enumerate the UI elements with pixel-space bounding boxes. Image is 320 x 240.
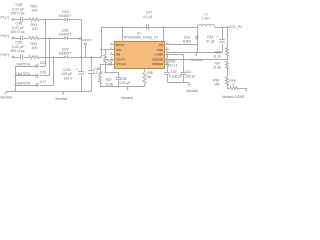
svg-text:1N4007: 1N4007: [59, 33, 72, 37]
svg-text:+: +: [89, 66, 91, 69]
svg-text:1M: 1M: [147, 75, 152, 79]
svg-text:SS/TR: SS/TR: [116, 57, 125, 61]
svg-text:D21: D21: [40, 61, 46, 65]
svg-text:1N4757A: 1N4757A: [16, 81, 31, 85]
svg-text:D17: D17: [40, 80, 46, 84]
svg-text:100: 100: [32, 46, 38, 50]
svg-text:305 V ac: 305 V ac: [11, 12, 25, 16]
svg-text:10k: 10k: [214, 83, 220, 87]
svg-text:Neutral: Neutral: [121, 96, 133, 100]
svg-text:D19: D19: [40, 71, 46, 75]
svg-text:PWRGD: PWRGD: [152, 62, 163, 66]
svg-text:100: 100: [32, 27, 38, 31]
svg-text:P1(+): P1(+): [1, 16, 10, 20]
svg-text:B160: B160: [183, 40, 191, 44]
svg-text:+: +: [76, 68, 78, 71]
svg-text:1N4007: 1N4007: [59, 52, 72, 56]
svg-text:PH: PH: [159, 43, 163, 47]
svg-text:C42: C42: [207, 35, 213, 39]
svg-text:100 pF: 100 pF: [185, 74, 195, 78]
svg-text:TPS54060_DGQ_10: TPS54060_DGQ_10: [123, 36, 158, 40]
svg-text:305 V ac: 305 V ac: [11, 30, 25, 34]
svg-text:P3(+): P3(+): [1, 53, 10, 57]
svg-text:BOOT: BOOT: [116, 43, 124, 47]
svg-text:100 V: 100 V: [64, 76, 74, 80]
svg-text:Neutral: Neutral: [1, 96, 13, 100]
svg-text:1N4007: 1N4007: [59, 14, 72, 18]
svg-text:P2(+): P2(+): [1, 34, 10, 38]
svg-text:41.1k: 41.1k: [213, 55, 221, 59]
svg-text:1N4757A: 1N4757A: [16, 62, 31, 66]
svg-text:1 mH: 1 mH: [202, 17, 211, 21]
svg-text:VCC_PL: VCC_PL: [228, 24, 244, 29]
svg-text:Neutral: Neutral: [186, 89, 198, 93]
svg-text:0: 0: [233, 82, 235, 86]
svg-text:Neutral: Neutral: [191, 58, 203, 62]
svg-text:1N4757A: 1N4757A: [16, 72, 31, 76]
svg-text:10.2k: 10.2k: [105, 82, 113, 86]
svg-text:2.2 µF: 2.2 µF: [93, 71, 103, 75]
svg-text:GND: GND: [157, 48, 163, 52]
svg-text:47 µF: 47 µF: [206, 39, 215, 43]
svg-text:31.6k: 31.6k: [213, 65, 221, 69]
svg-text:Neutral DGND: Neutral DGND: [222, 95, 245, 99]
svg-text:305 V ac: 305 V ac: [11, 49, 25, 53]
svg-text:COMP: COMP: [155, 53, 164, 57]
svg-text:+: +: [217, 35, 219, 38]
svg-text:EN: EN: [116, 53, 120, 57]
svg-text:VSENSE: VSENSE: [151, 57, 163, 61]
svg-text:100: 100: [32, 9, 38, 13]
svg-text:22.1k: 22.1k: [169, 64, 177, 68]
svg-text:0.1 µF: 0.1 µF: [143, 15, 153, 19]
svg-text:0.01 µF: 0.01 µF: [120, 81, 131, 85]
svg-text:SUPPLY: SUPPLY: [82, 38, 93, 42]
svg-text:Neutral: Neutral: [56, 97, 68, 101]
svg-text:0.036 µF: 0.036 µF: [169, 74, 182, 78]
svg-text:VIN: VIN: [116, 48, 121, 52]
svg-text:RT/CLK: RT/CLK: [116, 62, 126, 66]
